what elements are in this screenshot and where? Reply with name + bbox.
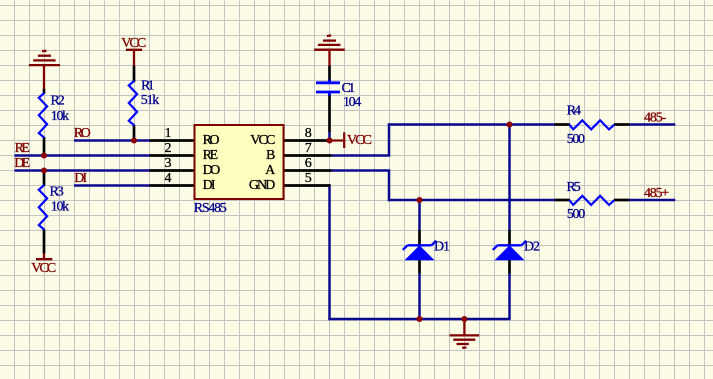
- svg-text:4: 4: [165, 171, 172, 186]
- svg-text:D1: D1: [434, 240, 450, 255]
- svg-text:6: 6: [305, 156, 312, 171]
- svg-text:VCC: VCC: [121, 36, 146, 51]
- svg-text:RO: RO: [203, 133, 220, 148]
- svg-text:7: 7: [305, 141, 312, 156]
- svg-text:51k: 51k: [141, 93, 160, 108]
- svg-text:VCC: VCC: [347, 133, 372, 148]
- svg-text:RS485: RS485: [194, 201, 227, 216]
- svg-text:RE: RE: [15, 141, 30, 156]
- svg-text:5: 5: [305, 171, 312, 186]
- svg-text:10k: 10k: [51, 109, 69, 124]
- svg-text:R2: R2: [51, 94, 65, 109]
- svg-text:500: 500: [567, 207, 585, 222]
- svg-text:R1: R1: [141, 79, 155, 94]
- svg-text:2: 2: [165, 141, 172, 156]
- svg-text:A: A: [265, 163, 276, 178]
- svg-text:D2: D2: [524, 240, 540, 255]
- svg-text:DO: DO: [203, 163, 221, 178]
- svg-text:1: 1: [165, 126, 172, 141]
- svg-text:10k: 10k: [51, 199, 69, 214]
- svg-text:DI: DI: [74, 171, 87, 186]
- svg-text:104: 104: [343, 95, 361, 110]
- svg-text:R3: R3: [50, 184, 64, 199]
- svg-text:500: 500: [567, 132, 585, 147]
- svg-text:DI: DI: [203, 178, 216, 193]
- svg-text:VCC: VCC: [250, 133, 275, 148]
- svg-text:C1: C1: [342, 81, 356, 96]
- svg-text:RO: RO: [74, 126, 91, 141]
- svg-text:R5: R5: [567, 180, 581, 195]
- svg-text:3: 3: [165, 156, 172, 171]
- svg-text:8: 8: [305, 126, 312, 141]
- svg-text:VCC: VCC: [31, 261, 56, 276]
- svg-text:B: B: [266, 148, 275, 163]
- svg-text:DE: DE: [14, 156, 30, 171]
- svg-text:485-: 485-: [644, 111, 667, 126]
- svg-text:R4: R4: [567, 103, 581, 118]
- svg-text:RE: RE: [203, 148, 219, 163]
- svg-text:GND: GND: [249, 178, 275, 193]
- svg-text:485+: 485+: [644, 186, 669, 201]
